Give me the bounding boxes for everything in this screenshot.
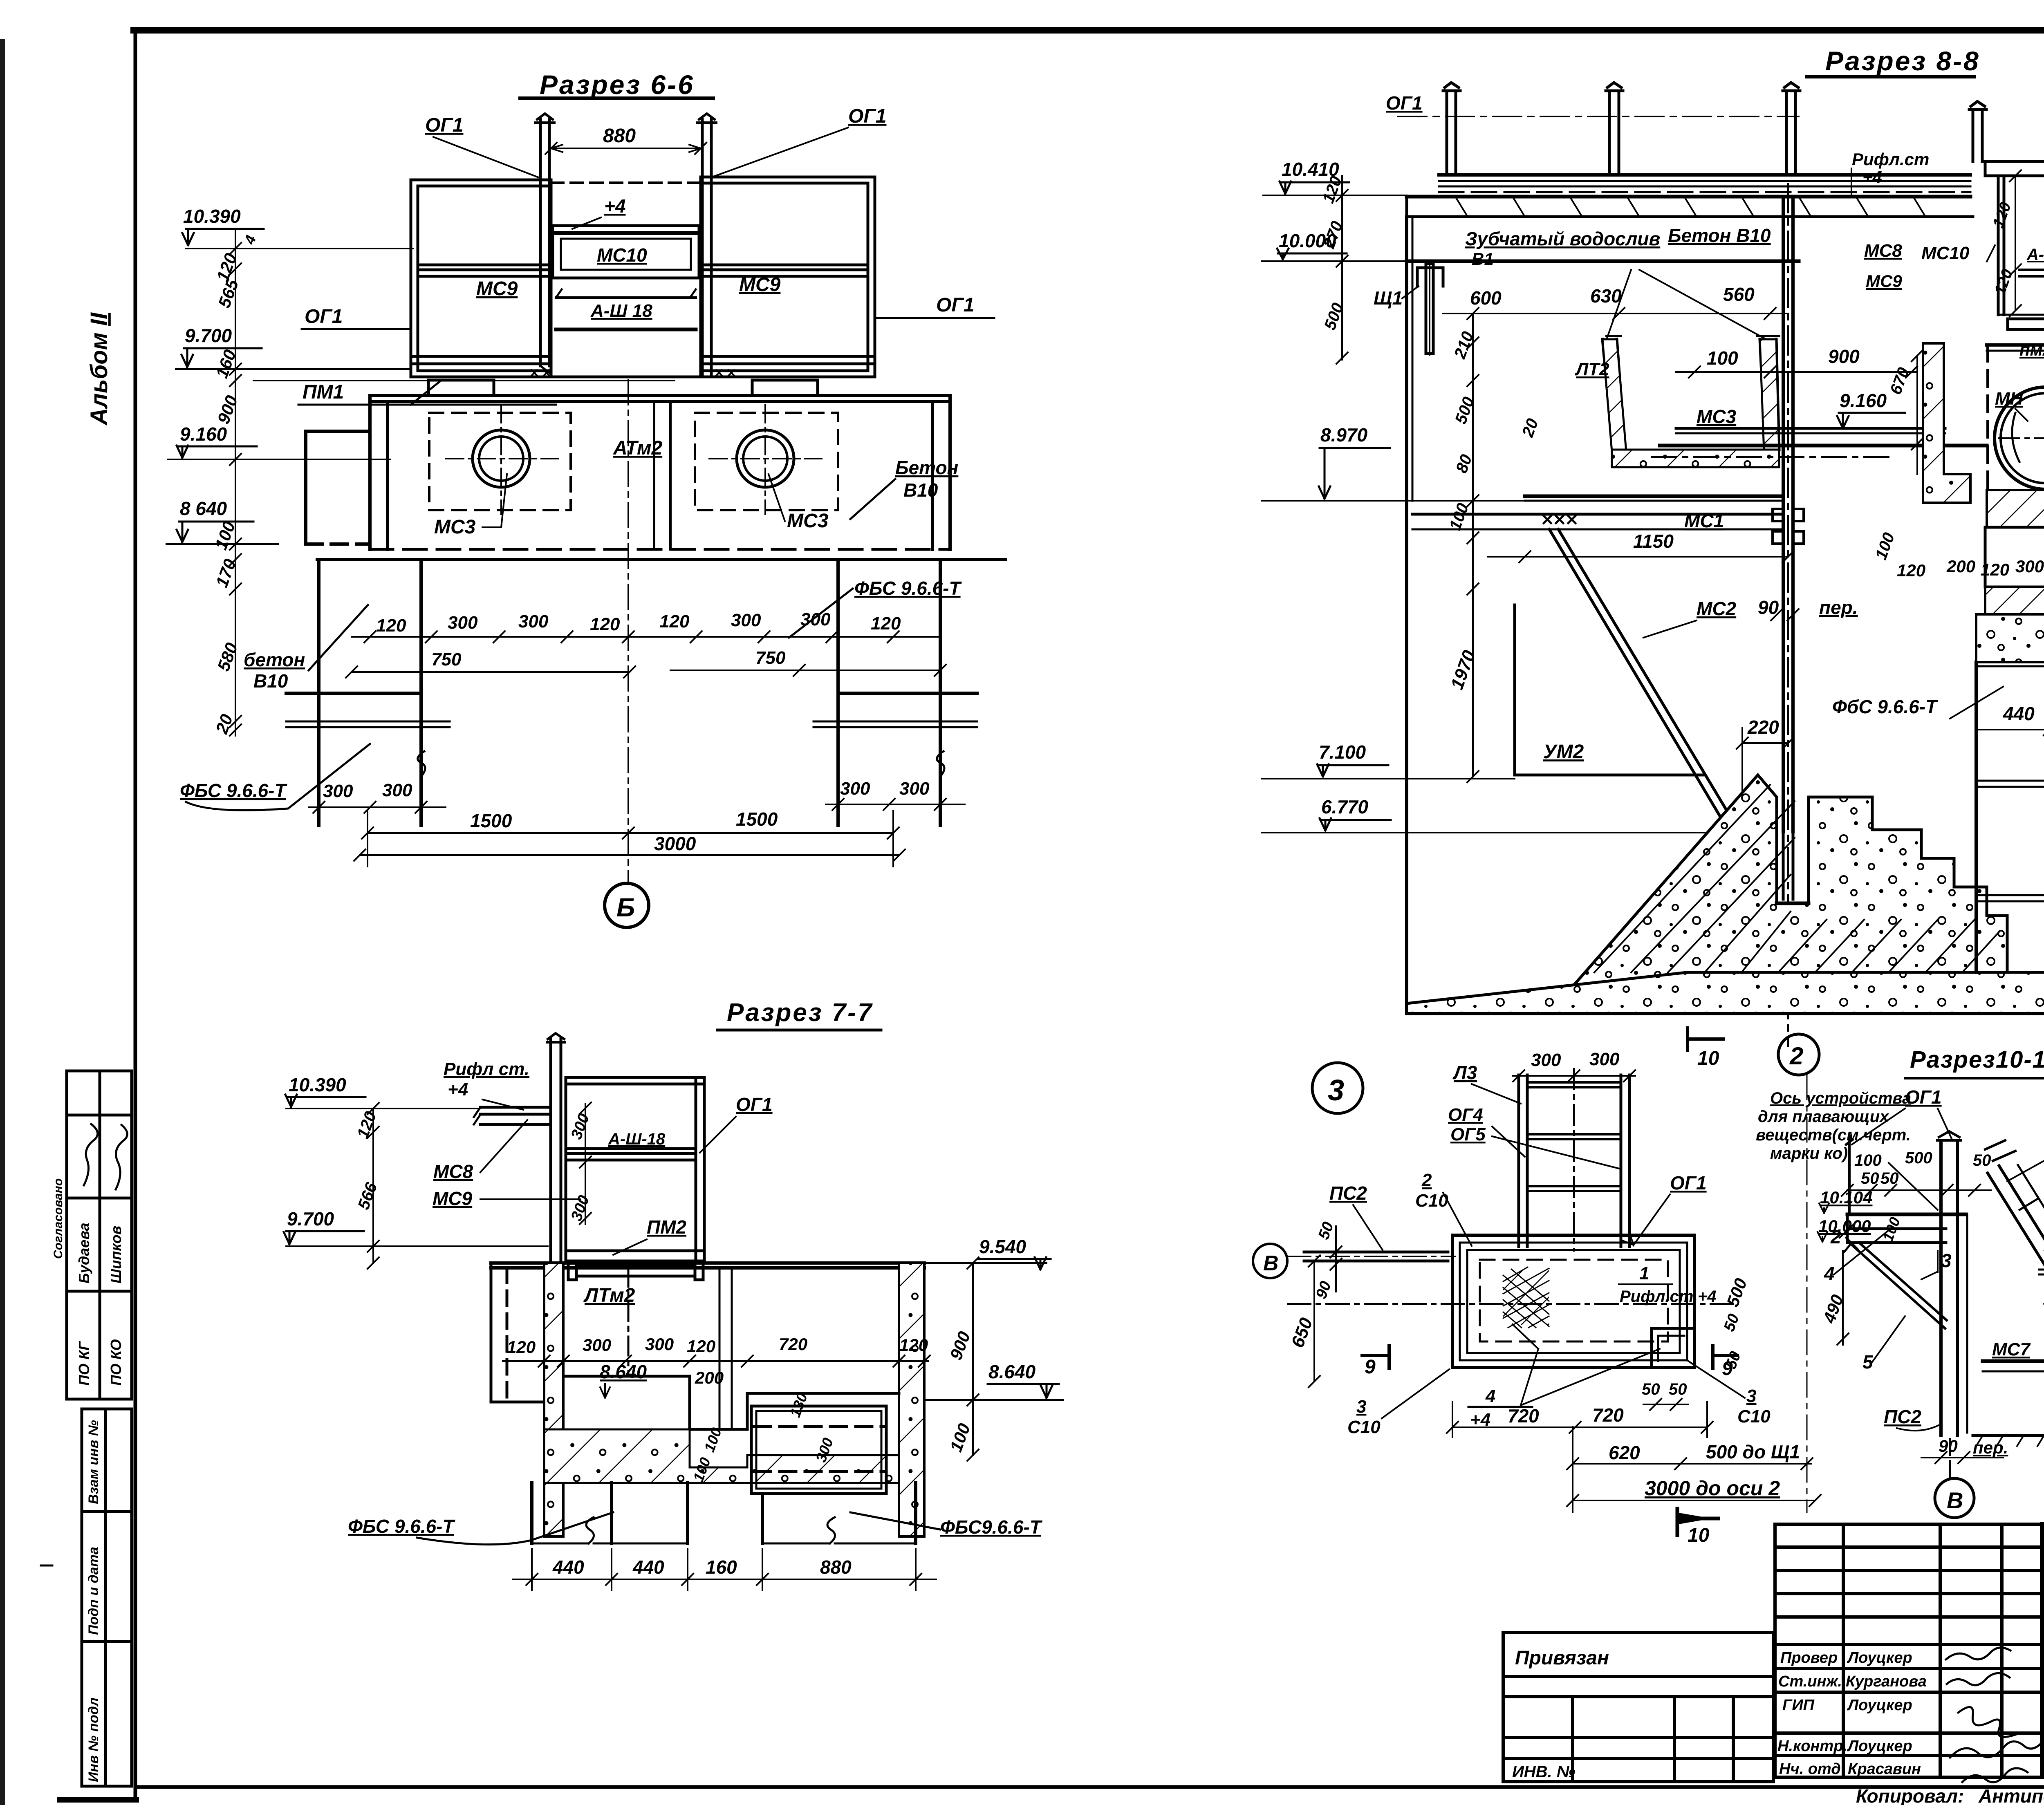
svg-text:8 640: 8 640 [180,498,227,519]
svg-text:2: 2 [1789,1042,1803,1070]
tall column ПС2 10-10 [1937,1131,1967,1435]
svg-text:МН: МН [1995,389,2024,409]
svg-text:120: 120 [1897,561,1925,580]
svg-text:9.540: 9.540 [979,1236,1026,1257]
small vert dims 300/300 on post [568,1111,593,1223]
staff signatures [1946,1648,2042,1783]
svg-text:10: 10 [1688,1525,1710,1546]
svg-text:566: 566 [354,1180,381,1212]
svg-text:А-Ш 18: А-Ш 18 [590,301,652,321]
svg-text:8.970: 8.970 [1320,424,1368,446]
trough ЛТ2 8-8 [1602,336,1779,467]
svg-text:120: 120 [1990,200,2015,230]
svg-text:1150: 1150 [1633,531,1674,552]
svg-text:Л3: Л3 [1452,1062,1477,1083]
small rotated dims in pocket [690,1391,836,1484]
svg-text:50: 50 [1669,1380,1687,1398]
svg-text:440: 440 [2003,703,2035,724]
svg-text:МС9: МС9 [1866,271,1902,291]
tank body bottom dashed [370,548,950,551]
svg-text:750: 750 [431,649,462,670]
svg-text:ЛТ2: ЛТ2 [1575,359,1609,379]
svg-text:720: 720 [1508,1405,1539,1427]
svg-text:ОГ1: ОГ1 [1905,1086,1942,1108]
right chamber floor [1987,345,2044,351]
left vert chain 8-8 [1336,176,1348,364]
svg-text:20: 20 [1519,416,1542,440]
svg-text:560: 560 [1723,284,1755,305]
svg-text:3: 3 [1941,1250,1952,1271]
pipe circle left [473,430,530,487]
post 7-7 [547,1033,565,1261]
svg-text:Зубчатый водослив: Зубчатый водослив [1465,228,1660,249]
svg-text:Согласовано: Согласовано [52,1178,65,1259]
svg-text:Н.контр.: Н.контр. [1777,1738,1847,1755]
svg-text:ПС2: ПС2 [1884,1406,1921,1427]
svg-text:ПМ1: ПМ1 [303,381,344,403]
svg-text:А-Ш-18: А-Ш-18 [608,1130,666,1148]
svg-text:1500: 1500 [736,808,778,830]
scan edge artifact left [0,39,5,1805]
svg-text:ОГ1: ОГ1 [425,114,464,136]
svg-text:100: 100 [1872,530,1898,562]
svg-text:9.700: 9.700 [287,1208,334,1229]
middle box MC10 [553,226,699,278]
basin interior verticals 7-7 [628,1268,732,1429]
svg-text:ФБС 9.6.6-Т: ФБС 9.6.6-Т [348,1516,456,1537]
left side stamp upper table texts [52,1178,124,1386]
svg-text:4: 4 [241,233,260,247]
svg-text:Взам инв №: Взам инв № [86,1420,101,1504]
bottom annotation row [1856,1785,2044,1805]
svg-text:Разрез 7-7: Разрез 7-7 [727,999,873,1027]
trough support pads [411,366,875,396]
svg-text:120: 120 [376,616,406,636]
second vert chain 8-8 [1467,314,1479,595]
Щ1 plate [1417,264,1443,355]
svg-text:7.100: 7.100 [1319,741,1366,763]
svg-text:бетон: бетон [244,649,305,670]
svg-text:300: 300 [382,780,412,800]
svg-text:300: 300 [899,779,930,799]
left wall of upper box right chamber [1998,176,2044,315]
svg-text:9: 9 [1365,1356,1376,1378]
svg-text:2: 2 [1421,1170,1432,1190]
left concrete wall of right chamber [1923,343,1970,503]
svg-text:ОГ1: ОГ1 [736,1094,773,1115]
fbc block right 7-7 [762,1483,916,1543]
dim row basin 7-7 [507,1335,928,1357]
svg-text:300: 300 [645,1335,674,1354]
svg-text:120: 120 [659,611,690,632]
svg-text:100: 100 [1707,347,1738,369]
svg-text:9: 9 [1722,1358,1733,1380]
svg-text:ОГ1: ОГ1 [1386,92,1423,114]
svg-text:МС1: МС1 [1684,510,1724,531]
svg-text:1970: 1970 [1447,647,1479,692]
dim 300/300 right under block [840,779,930,799]
main left wall 8-8 [1407,217,1412,1014]
svg-text:300: 300 [1589,1049,1620,1069]
centerline axis Б [628,380,629,883]
bottom slab left chamber 8-8 [1412,496,1783,529]
axis B circle [1253,1244,1287,1278]
svg-text:Привязан: Привязан [1515,1647,1609,1669]
svg-text:ОГ1: ОГ1 [1670,1172,1707,1194]
beam МС8 left [474,1107,551,1124]
basin right wall hatched [899,1263,924,1536]
svg-text:ПС2: ПС2 [1329,1182,1367,1204]
svg-text:3000: 3000 [654,833,696,854]
left side stamp lower texts [86,1420,101,1782]
svg-text:С10: С10 [1347,1417,1381,1437]
left flag post 10-10 [1846,1136,1853,1214]
svg-text:В10: В10 [903,479,938,501]
svg-text:пер.: пер. [1973,1438,2008,1457]
brace МС2 [1549,529,1738,832]
tank body 6-6 [370,396,950,549]
dashed top chord between wings [551,181,701,184]
left protruding box [306,431,370,544]
svg-text:МС3: МС3 [787,510,829,532]
dims row right chamber [1897,557,2044,580]
svg-text:ПО КО: ПО КО [108,1339,124,1386]
svg-text:3: 3 [1328,1074,1344,1107]
svg-text:10: 10 [1697,1048,1719,1069]
left side stamp lower table [82,1409,132,1786]
vertical chain 7-7 [368,1103,379,1269]
deck hatch marks 8-8 [1455,197,1925,217]
svg-text:3: 3 [1356,1397,1366,1417]
centerlines through pipes [446,405,822,514]
circled В 10-10 [1935,1478,1974,1518]
svg-text:пер.: пер. [1819,597,1858,618]
svg-text:ОГ5: ОГ5 [1450,1124,1486,1144]
svg-text:50: 50 [1721,1312,1743,1334]
bottom slab 8-8 [1407,972,2044,1014]
svg-text:МС9: МС9 [476,278,518,300]
svg-text:100: 100 [946,1421,974,1454]
svg-text:900: 900 [946,1329,974,1362]
svg-text:Разрез 8-8: Разрез 8-8 [1825,46,1980,76]
svg-text:300: 300 [323,781,353,801]
pipe circle right [737,430,794,487]
svg-text:Ст.инж.: Ст.инж. [1778,1673,1842,1690]
bottom bar under stamp column [57,1797,139,1803]
svg-text:300: 300 [518,611,549,632]
rebar bars right chamber [2019,270,2044,276]
svg-text:Щ1: Щ1 [1374,287,1403,309]
small tick left of stamp [41,1565,52,1567]
plan step notch bottom-right [1652,1328,1694,1368]
svg-text:Альбом II: Альбом II [86,312,112,426]
dims 100 500 50 10-10 [1854,1149,1991,1187]
svg-text:МС7: МС7 [1992,1339,2031,1359]
dim 300/300 left under block [323,780,412,801]
left side stamp upper table [67,1071,132,1399]
svg-text:3: 3 [1746,1386,1756,1406]
svg-text:9.160: 9.160 [180,423,227,445]
svg-text:ФбС 9.6.6-Т: ФбС 9.6.6-Т [1832,696,1939,717]
svg-text:440: 440 [632,1556,664,1578]
staff table [1775,1524,2042,1777]
title block: pривязан table [1503,1633,1773,1782]
svg-text:МС10: МС10 [597,244,647,266]
svg-text:МС3: МС3 [434,516,476,538]
svg-text:1500: 1500 [470,810,512,831]
svg-text:МС9: МС9 [433,1188,473,1209]
dashed hooks on ladder [2039,1270,2044,1348]
svg-text:Ось устройства: Ось устройства [1770,1089,1911,1107]
svg-text:120: 120 [354,1109,380,1141]
svg-text:8.640: 8.640 [988,1361,1036,1382]
svg-text:Рифл ст.: Рифл ст. [444,1059,529,1079]
svg-text:880: 880 [603,125,636,147]
10 flag below plan [1677,1509,1718,1535]
plan inner dashed rect [1480,1260,1668,1341]
МН pipe circle [1995,387,2044,489]
trough left wing 6-6 [411,180,551,377]
svg-text:4: 4 [1485,1386,1495,1406]
circled 3 node mark [1312,1063,1363,1113]
svg-text:Разрез10-10: Разрез10-10 [1910,1046,2044,1073]
svg-text:500: 500 [1905,1149,1932,1167]
svg-text:МС3: МС3 [1697,406,1737,427]
svg-text:В: В [1263,1252,1279,1275]
inner dashed chamber right [695,413,838,510]
circled Б axis mark [605,883,649,927]
svg-text:300: 300 [1531,1050,1561,1070]
svg-text:Разрез 6-6: Разрез 6-6 [540,69,695,100]
svg-text:Рифл.ст.+4: Рифл.ст.+4 [1620,1288,1717,1306]
basin left wall hatched [544,1263,563,1536]
svg-text:10.390: 10.390 [183,206,241,227]
svg-text:В: В [1947,1487,1963,1513]
ladder plan rails [1519,1075,1629,1247]
svg-text:300: 300 [568,1193,593,1223]
small dims 50 90 on bar [1313,1220,1337,1301]
svg-text:220: 220 [1747,717,1779,738]
svg-text:120: 120 [590,614,620,634]
svg-text:4: 4 [1824,1263,1835,1284]
svg-text:Лоуцкер: Лоуцкер [1847,1697,1912,1714]
svg-text:Инв № подл: Инв № подл [86,1698,101,1782]
svg-text:С10: С10 [1737,1406,1771,1427]
svg-text:90: 90 [1313,1279,1335,1301]
svg-text:Шипков: Шипков [108,1226,124,1283]
bolts xxx [1544,516,1576,523]
pocket for post [1777,832,1809,903]
big title box [2042,1524,2044,1777]
signatures squiggles upper [84,1124,127,1189]
vertical dimension chain 6-6 [230,229,241,736]
svg-text:ПМ2: ПМ2 [647,1216,686,1238]
svg-text:130: 130 [787,1391,811,1419]
svg-text:100: 100 [1854,1151,1882,1169]
svg-text:1: 1 [1639,1263,1649,1283]
platform 10-10 [1847,1214,1966,1243]
svg-text:А-Ш-18: А-Ш-18 [2026,246,2044,264]
svg-text:+4: +4 [604,195,625,217]
svg-text:МС8: МС8 [433,1161,473,1182]
chamber bottom slabs 8-8 [1987,490,2044,527]
svg-text:440: 440 [552,1556,584,1578]
svg-text:120: 120 [871,614,901,634]
inner dashed chamber left [429,413,571,510]
ladder Л3 diagonal 10-10 [1988,1165,2044,1443]
svg-text:50: 50 [1973,1151,1991,1169]
svg-text:Курганова: Курганова [1846,1673,1927,1690]
ground 10-10 [1973,1434,2044,1437]
dim row 120/300/300/120 x2 [376,609,901,636]
svg-text:ОГ1: ОГ1 [305,306,343,327]
svg-text:10.390: 10.390 [289,1074,346,1095]
svg-text:АТм2: АТм2 [613,437,662,459]
dims 600 630 560 [1470,284,1755,309]
svg-text:Красавин: Красавин [1848,1760,1921,1778]
svg-text:ФБС9.6.6-Т: ФБС9.6.6-Т [940,1516,1043,1538]
section mark 9 right [1713,1346,1737,1368]
svg-text:9.160: 9.160 [1840,390,1887,411]
svg-text:ИНВ. №: ИНВ. № [1512,1763,1576,1781]
svg-text:300: 300 [2015,557,2044,576]
svg-text:500 до Щ1: 500 до Щ1 [1706,1441,1800,1462]
svg-text:Подп и дата: Подп и дата [86,1547,101,1635]
basin 7-7 top rim [491,1263,924,1268]
svg-text:500: 500 [1321,300,1347,332]
svg-text:9.700: 9.700 [185,325,232,346]
foundation below 6-6 [286,560,1006,826]
svg-text:ФБС 9.6.6-Т: ФБС 9.6.6-Т [854,578,962,599]
svg-text:670: 670 [1887,365,1913,397]
svg-text:50: 50 [1642,1380,1660,1398]
upper box 7-7 [566,1077,704,1261]
svg-text:Бетон В10: Бетон В10 [1668,225,1771,246]
Ум2 wall [1515,605,1705,775]
axis text block 10-10 [1756,1089,1911,1162]
svg-text:500: 500 [1452,394,1478,426]
dim line left of chamber [1912,350,1923,474]
svg-text:620: 620 [1609,1442,1640,1463]
svg-text:300: 300 [583,1335,611,1355]
right sleeve box 7-7 [751,1406,886,1494]
post left 6-6 [539,119,542,366]
svg-text:Лоуцкер: Лоуцкер [1847,1738,1912,1755]
10 flag below 8-8 [1688,1028,1723,1050]
svg-text:Антипова.: Антипова. [1978,1785,2044,1805]
svg-text:100: 100 [1879,1215,1903,1243]
svg-text:Бетон: Бетон [895,457,958,478]
svg-text:90: 90 [1939,1436,1958,1456]
svg-text:120: 120 [899,1335,928,1355]
circled 2 below 8-8 [1778,1034,1819,1075]
svg-text:В1: В1 [1472,249,1494,269]
svg-text:Б: Б [616,893,635,922]
svg-text:МС10: МС10 [1921,243,1970,263]
right chamber 8-8 [1985,161,2044,329]
svg-text:120: 120 [507,1337,536,1357]
svg-text:565: 565 [214,277,242,311]
svg-text:650: 650 [1287,1315,1316,1350]
diagonal brace 10-10 [1845,1238,1947,1328]
slope hatch lines [1594,785,1999,972]
svg-text:ОГ1: ОГ1 [936,294,975,316]
svg-text:Лоуцкер: Лоуцкер [1847,1649,1912,1666]
svg-text:ОГ4: ОГ4 [1448,1105,1483,1125]
svg-text:900: 900 [213,393,241,426]
svg-text:для плавающих: для плавающих [1758,1108,1889,1126]
fbc block left 7-7 [532,1483,688,1543]
svg-text:марки ко): марки ко) [1770,1144,1848,1162]
svg-text:веществ(см.черт.: веществ(см.черт. [1756,1126,1911,1144]
МС3 beam 8-8 [1652,428,1987,457]
svg-text:В10: В10 [253,670,288,692]
svg-text:8.640: 8.640 [600,1361,647,1382]
svg-text:580: 580 [213,640,241,674]
svg-text:+4: +4 [1862,168,1882,187]
bottom slab hatch 7-7 [544,1429,899,1483]
sloped concrete mass 8-8 [1551,775,2007,1012]
railing posts 8-8 [1443,83,1986,175]
svg-text:300: 300 [731,610,761,630]
svg-text:300: 300 [840,779,870,799]
svg-text:Копировал:: Копировал: [1856,1785,1964,1805]
svg-text:МС8: МС8 [1864,241,1902,261]
svg-text:ПО КГ: ПО КГ [76,1341,92,1386]
svg-text:Нч. отд: Нч. отд [1779,1760,1841,1778]
basin inner floor 7-7 [563,1376,899,1429]
ПС2 bar left of plan [1304,1252,1448,1261]
central wall 8-8 [1783,184,1793,1046]
right vertical dims 900/100 [967,1257,979,1461]
ОГ1 dash line 8-8 [1398,116,1799,117]
svg-text:+4: +4 [448,1079,468,1100]
hatch patch in plan [1503,1269,1549,1325]
svg-text:100: 100 [1446,501,1472,533]
svg-text:МС2: МС2 [1697,598,1737,619]
ladder rungs dashed 10-10 [2019,1198,2044,1414]
bearing pad 7-7 [568,1261,703,1280]
wall fittings 8-8 [1773,509,1804,544]
svg-text:Будаева: Будаева [76,1223,92,1283]
plan box walls [1452,1235,1694,1368]
staff table texts [1777,1649,1927,1778]
svg-text:630: 630 [1590,285,1622,307]
left dashed wall right chamber [1986,345,1989,490]
svg-text:600: 600 [1470,287,1502,309]
svg-text:120: 120 [687,1337,715,1356]
svg-text:УМ2: УМ2 [1543,741,1584,763]
svg-text:500: 500 [1723,1276,1750,1309]
level 10.000 line [1407,260,1799,263]
fbc column right 8-8 [1976,662,2044,972]
svg-text:ГИП: ГИП [1782,1697,1815,1714]
deck band 8-8 [1407,175,1973,217]
bottom dims 440/440/160/880 [552,1556,852,1578]
section mark 9 left [1362,1346,1389,1368]
svg-text:200: 200 [1946,557,1975,576]
svg-text:3000 до оси 2: 3000 до оси 2 [1645,1477,1780,1500]
svg-text:120: 120 [1981,560,2009,579]
svg-text:50: 50 [1315,1220,1337,1242]
svg-text:Провер: Провер [1780,1649,1838,1666]
svg-text:720: 720 [779,1335,807,1354]
svg-text:ФБС 9.6.6-Т: ФБС 9.6.6-Т [180,780,288,801]
svg-text:900: 900 [1828,346,1860,367]
svg-text:Рифл.ст: Рифл.ст [1852,150,1929,169]
svg-text:ОГ1: ОГ1 [848,105,887,127]
trough right wing 6-6 [701,177,875,377]
